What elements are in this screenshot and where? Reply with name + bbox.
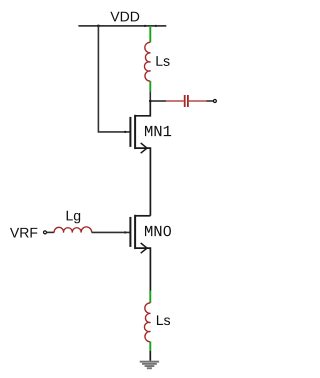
junction on VDD rail bbox=[97, 25, 100, 28]
label Ls (top) bbox=[156, 56, 169, 66]
inductor Lg bbox=[54, 227, 92, 233]
transistor MN0 drain lead bbox=[135, 215, 150, 217]
label Ls (bottom) bbox=[157, 315, 170, 325]
capacitor right plate bbox=[187, 95, 189, 107]
transistor MN0 source lead bbox=[135, 248, 150, 290]
label MN1 bbox=[145, 126, 171, 136]
transistor MN1 channel bar bbox=[134, 115, 136, 149]
junction MN0 gate pin bbox=[124, 231, 126, 233]
transistor MN0 channel bar bbox=[134, 215, 136, 249]
transistor MN1 source arrow bbox=[141, 143, 147, 153]
junction MN1 gate pin bbox=[124, 131, 126, 133]
label Lg bbox=[67, 211, 81, 224]
label VRF bbox=[10, 228, 37, 238]
wire VDD rail bbox=[78, 25, 166, 27]
node VDD label bbox=[110, 12, 139, 22]
transistor MN1 gate bar bbox=[129, 117, 131, 147]
wire Ls to node A bbox=[149, 91, 151, 101]
wire to ground bbox=[149, 351, 151, 361]
inductor Ls (top) bbox=[144, 42, 150, 81]
wire VDD to MN1 gate bbox=[98, 26, 129, 132]
rail segment dot right bbox=[155, 25, 157, 27]
wire node A to MN1 drain bbox=[135, 101, 150, 116]
wire VDD rail to Ls (green stub) bbox=[149, 26, 151, 42]
output terminal circle bbox=[213, 100, 216, 103]
wire Lg to MN0 gate bbox=[92, 231, 130, 233]
wire capacitor to output terminal bbox=[207, 100, 214, 102]
transistor MN1 source lead bbox=[135, 148, 150, 216]
rail segment dot left bbox=[144, 25, 146, 27]
wire MN0 source to Ls (green stub) bbox=[149, 291, 151, 303]
wire Ls bottom (green stub) bbox=[149, 81, 151, 91]
transistor MN0 source arrow bbox=[141, 243, 147, 253]
capacitor right lead bbox=[189, 100, 207, 102]
transistor MN0 gate bar bbox=[129, 217, 131, 247]
wire Ls to ground (green stub) bbox=[149, 342, 151, 351]
input terminal circle VRF bbox=[44, 231, 47, 234]
label MN0 bbox=[145, 226, 171, 237]
wire node A to capacitor bbox=[150, 100, 166, 102]
inductor Ls (bottom) bbox=[144, 303, 150, 342]
capacitor left lead bbox=[166, 100, 184, 102]
ground symbol bbox=[140, 361, 159, 369]
junction node A bbox=[149, 100, 152, 103]
wire VRF terminal to Lg bbox=[47, 231, 55, 233]
capacitor left plate bbox=[184, 95, 186, 107]
